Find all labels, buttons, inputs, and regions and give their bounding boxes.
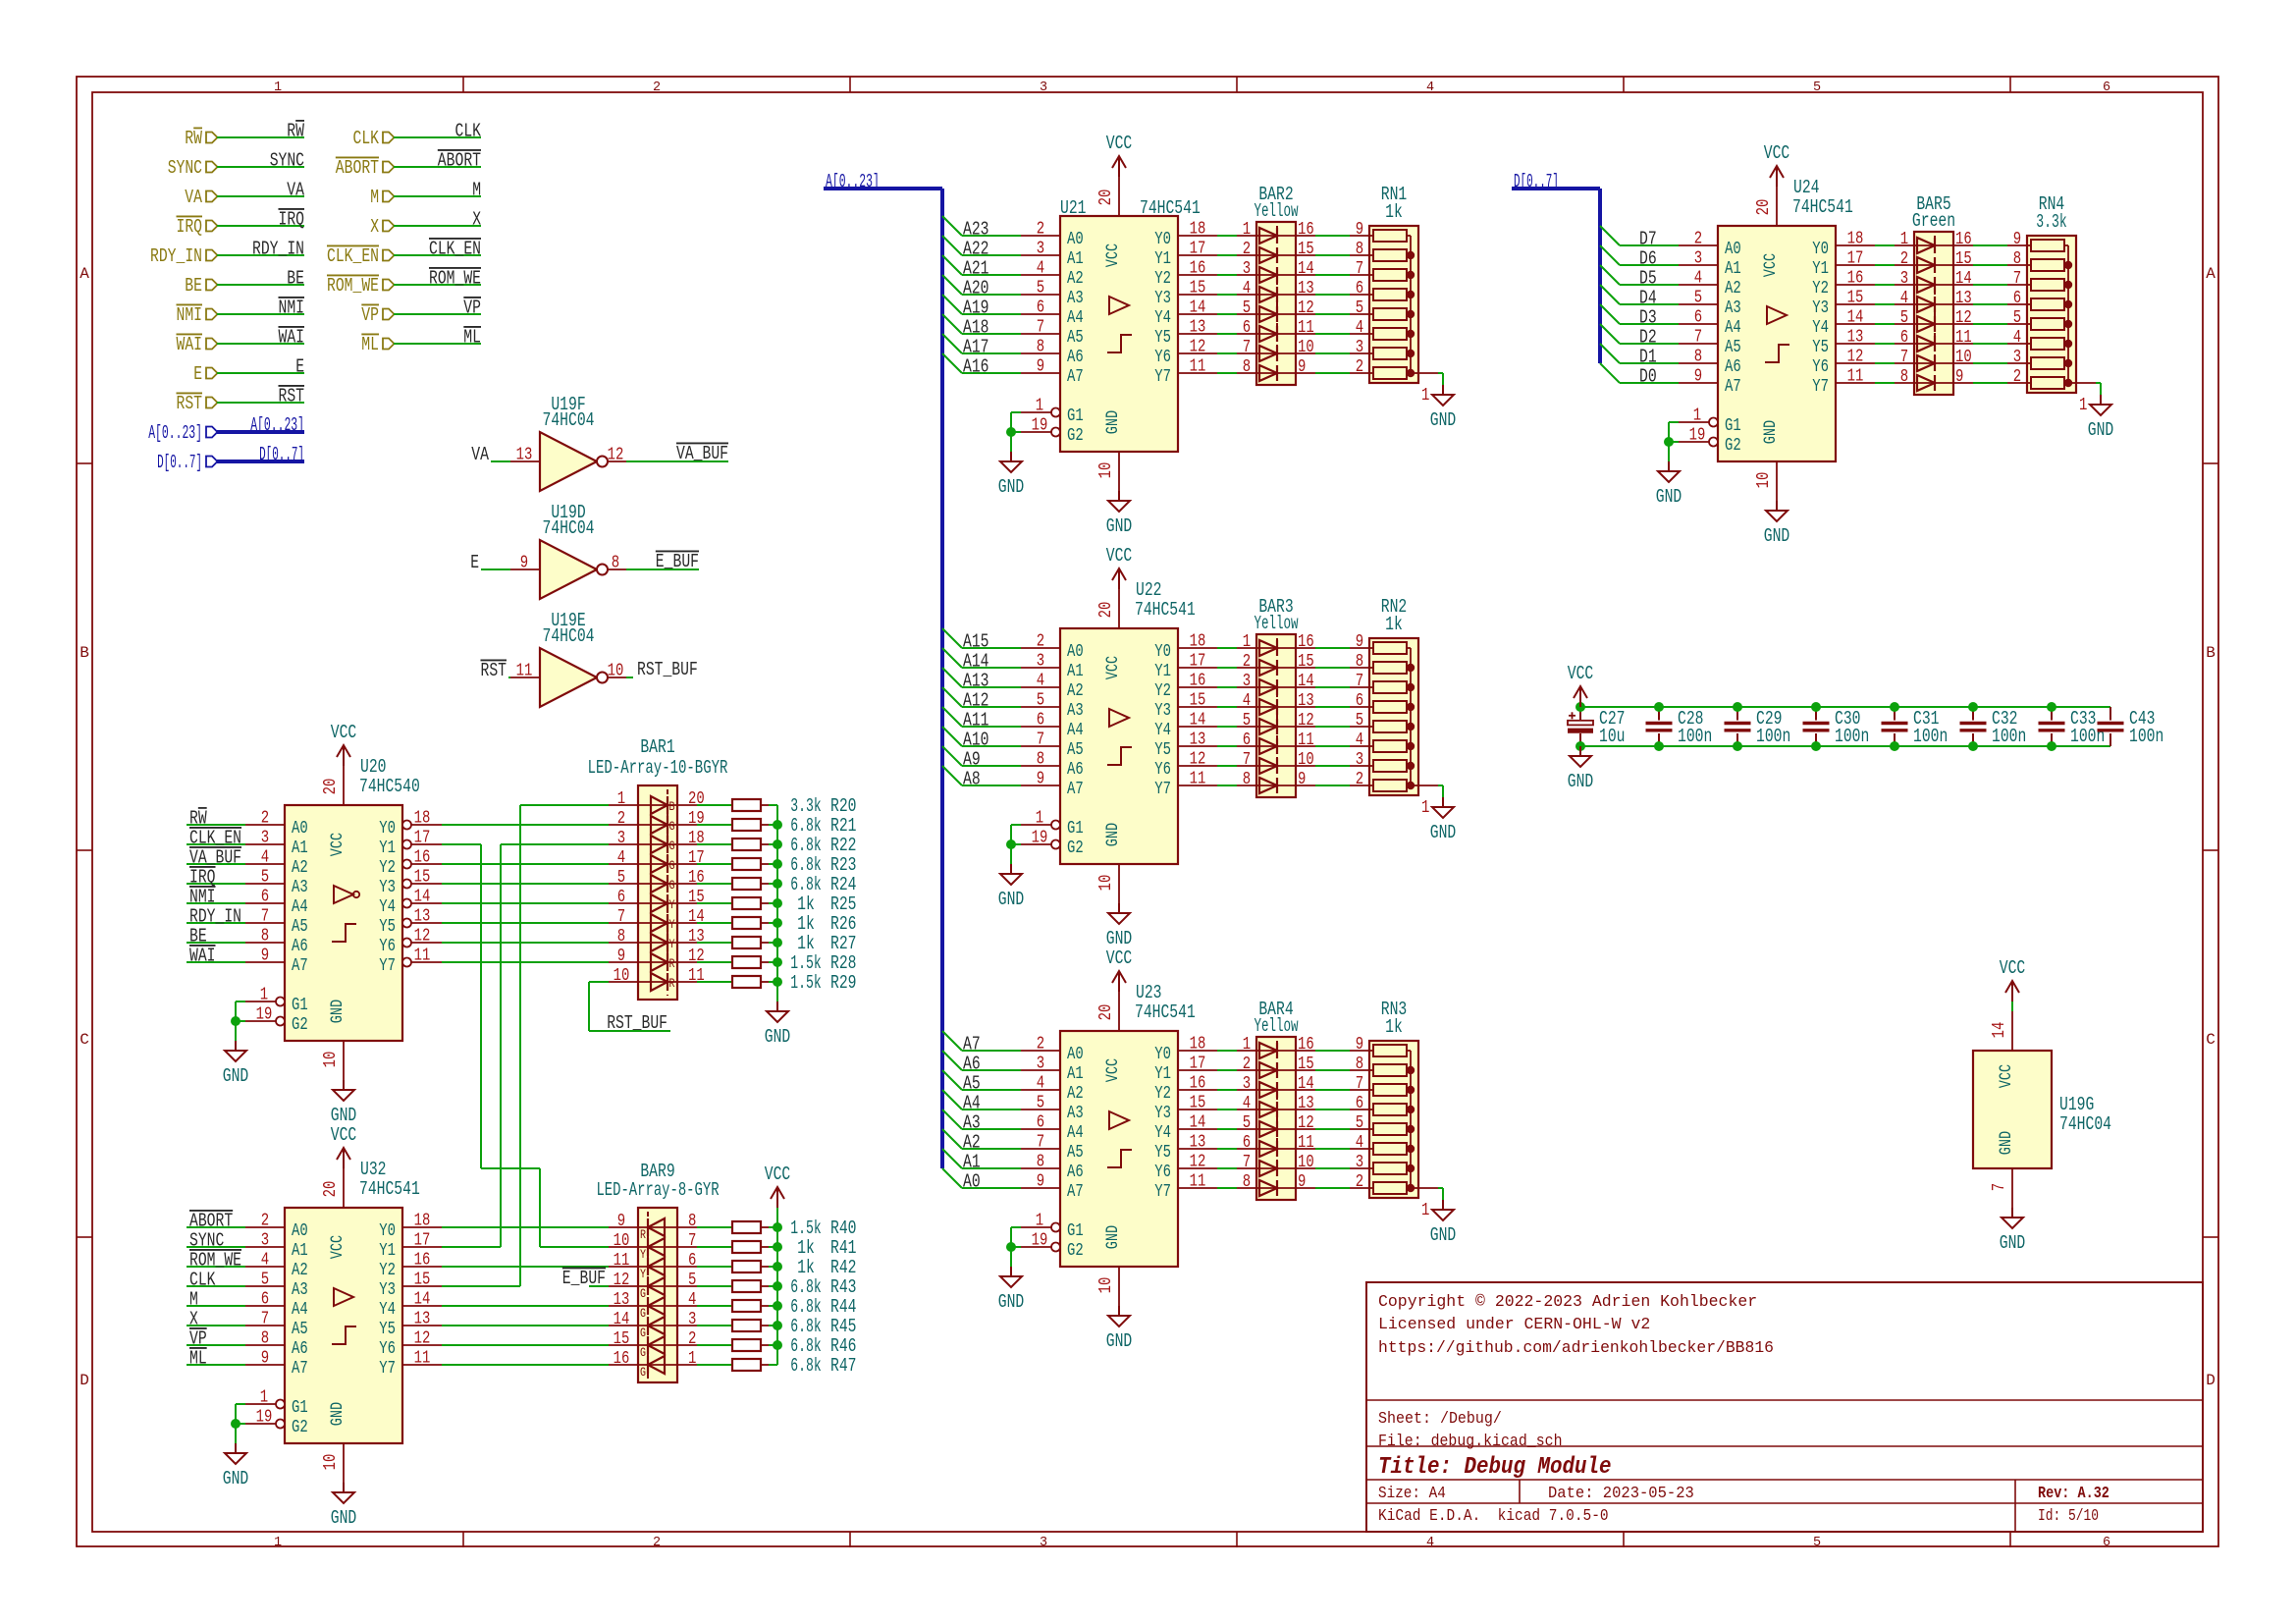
svg-text:1: 1 bbox=[260, 986, 268, 1005]
svg-text:9: 9 bbox=[1356, 1035, 1363, 1055]
svg-text:5: 5 bbox=[1900, 308, 1908, 328]
svg-text:Y6: Y6 bbox=[1154, 1163, 1171, 1182]
svg-text:15: 15 bbox=[1955, 249, 1972, 269]
svg-text:18: 18 bbox=[1190, 632, 1206, 652]
svg-text:Y2: Y2 bbox=[379, 1261, 396, 1280]
svg-text:VCC: VCC bbox=[1568, 663, 1594, 684]
svg-text:Id: 5/10: Id: 5/10 bbox=[2038, 1506, 2099, 1525]
svg-text:A6: A6 bbox=[1725, 357, 1741, 377]
svg-text:Y3: Y3 bbox=[1154, 701, 1171, 721]
svg-text:74HC541: 74HC541 bbox=[1792, 196, 1853, 218]
svg-text:18: 18 bbox=[1847, 230, 1864, 249]
svg-text:11: 11 bbox=[1190, 1172, 1206, 1192]
svg-text:10: 10 bbox=[614, 1231, 630, 1251]
svg-text:7: 7 bbox=[1990, 1183, 2009, 1191]
svg-text:4: 4 bbox=[1037, 672, 1044, 691]
svg-text:15: 15 bbox=[1190, 1094, 1206, 1113]
svg-text:7: 7 bbox=[688, 1231, 696, 1251]
svg-text:100n: 100n bbox=[2129, 726, 2163, 747]
svg-text:8: 8 bbox=[617, 927, 625, 947]
svg-text:LED-Array-8-GYR: LED-Array-8-GYR bbox=[596, 1179, 719, 1201]
svg-text:2: 2 bbox=[1037, 632, 1044, 652]
svg-text:13: 13 bbox=[1847, 328, 1864, 348]
svg-text:A5: A5 bbox=[1067, 740, 1084, 760]
svg-text:4: 4 bbox=[1426, 81, 1434, 95]
svg-text:7: 7 bbox=[1694, 328, 1702, 348]
svg-text:5: 5 bbox=[1037, 1094, 1044, 1113]
svg-text:6: 6 bbox=[1037, 298, 1044, 318]
svg-text:12: 12 bbox=[414, 1329, 431, 1349]
svg-text:VCC: VCC bbox=[331, 722, 357, 743]
svg-text:A0: A0 bbox=[1725, 240, 1741, 259]
svg-text:1: 1 bbox=[1693, 406, 1701, 426]
svg-text:11: 11 bbox=[516, 662, 533, 681]
svg-text:5: 5 bbox=[1813, 1536, 1821, 1550]
svg-text:12: 12 bbox=[414, 927, 431, 947]
svg-text:11: 11 bbox=[614, 1251, 630, 1271]
svg-text:7: 7 bbox=[1037, 318, 1044, 338]
svg-text:G2: G2 bbox=[1067, 839, 1084, 858]
svg-text:CLK_EN: CLK_EN bbox=[189, 828, 241, 849]
svg-text:A2: A2 bbox=[1067, 1084, 1084, 1104]
svg-text:G: G bbox=[669, 839, 675, 853]
svg-text:8: 8 bbox=[1243, 770, 1251, 789]
svg-text:2: 2 bbox=[1243, 1055, 1251, 1074]
svg-text:Y: Y bbox=[640, 1267, 646, 1281]
svg-text:3.3k: 3.3k bbox=[2036, 211, 2066, 233]
svg-text:74HC04: 74HC04 bbox=[543, 409, 595, 431]
svg-text:17: 17 bbox=[414, 829, 431, 848]
svg-text:R: R bbox=[640, 1227, 646, 1242]
svg-text:6: 6 bbox=[1900, 328, 1908, 348]
svg-text:10: 10 bbox=[1096, 1277, 1116, 1294]
svg-text:1: 1 bbox=[1036, 809, 1043, 829]
svg-text:20: 20 bbox=[1096, 602, 1116, 619]
svg-text:16: 16 bbox=[1298, 220, 1314, 240]
svg-text:20: 20 bbox=[321, 1181, 341, 1198]
svg-text:14: 14 bbox=[614, 1310, 630, 1329]
svg-text:A7: A7 bbox=[1067, 1182, 1084, 1202]
svg-text:13: 13 bbox=[1298, 691, 1314, 711]
svg-text:D1: D1 bbox=[1639, 347, 1657, 368]
svg-text:Y0: Y0 bbox=[1154, 230, 1171, 249]
svg-text:1k: 1k bbox=[1385, 614, 1403, 635]
svg-text:6.8k: 6.8k bbox=[790, 815, 821, 837]
svg-text:12: 12 bbox=[1955, 308, 1972, 328]
svg-text:E_BUF: E_BUF bbox=[656, 551, 699, 572]
svg-text:E: E bbox=[193, 363, 202, 385]
svg-text:A3: A3 bbox=[1067, 1104, 1084, 1123]
svg-text:4: 4 bbox=[1356, 1133, 1363, 1153]
svg-text:6: 6 bbox=[1243, 1133, 1251, 1153]
svg-text:Green: Green bbox=[1912, 210, 1955, 232]
svg-text:G: G bbox=[640, 1306, 646, 1321]
svg-text:Y3: Y3 bbox=[379, 878, 396, 897]
svg-text:Y7: Y7 bbox=[1154, 1182, 1171, 1202]
svg-text:5: 5 bbox=[1813, 81, 1821, 95]
svg-text:Y3: Y3 bbox=[379, 1280, 396, 1300]
svg-text:1: 1 bbox=[1421, 386, 1429, 406]
svg-text:16: 16 bbox=[1298, 632, 1314, 652]
svg-text:7: 7 bbox=[1356, 1074, 1363, 1094]
svg-text:3: 3 bbox=[1037, 652, 1044, 672]
svg-text:9: 9 bbox=[1356, 632, 1363, 652]
svg-text:RST: RST bbox=[177, 393, 203, 414]
svg-text:A6: A6 bbox=[1067, 1163, 1084, 1182]
svg-text:3: 3 bbox=[261, 1231, 269, 1251]
svg-text:GND: GND bbox=[998, 1291, 1025, 1313]
svg-text:GND: GND bbox=[1761, 420, 1781, 444]
svg-text:A2: A2 bbox=[1725, 279, 1741, 298]
svg-text:5: 5 bbox=[1243, 711, 1251, 731]
svg-text:18: 18 bbox=[414, 809, 431, 829]
svg-text:C: C bbox=[2206, 1031, 2216, 1049]
svg-text:Y4: Y4 bbox=[1812, 318, 1829, 338]
svg-text:10: 10 bbox=[1298, 1153, 1314, 1172]
svg-text:GND: GND bbox=[1764, 525, 1790, 547]
svg-text:R23: R23 bbox=[830, 854, 857, 876]
svg-text:2: 2 bbox=[1037, 1035, 1044, 1055]
svg-text:17: 17 bbox=[1847, 249, 1864, 269]
svg-text:A3: A3 bbox=[1067, 701, 1084, 721]
svg-text:G1: G1 bbox=[1067, 1221, 1084, 1241]
svg-text:16: 16 bbox=[1190, 672, 1206, 691]
svg-text:7: 7 bbox=[1243, 338, 1251, 357]
svg-text:GND: GND bbox=[765, 1026, 791, 1048]
svg-text:16: 16 bbox=[614, 1349, 630, 1369]
svg-text:A1: A1 bbox=[1067, 1064, 1084, 1084]
svg-text:A6: A6 bbox=[292, 1339, 308, 1359]
svg-text:Y0: Y0 bbox=[1812, 240, 1829, 259]
svg-text:RST: RST bbox=[481, 660, 507, 681]
svg-text:VCC: VCC bbox=[765, 1164, 791, 1185]
svg-text:6.8k: 6.8k bbox=[790, 1355, 821, 1377]
svg-text:100n: 100n bbox=[1835, 726, 1869, 747]
svg-text:5: 5 bbox=[1694, 289, 1702, 308]
svg-text:A13: A13 bbox=[963, 671, 989, 692]
svg-text:A0: A0 bbox=[292, 1221, 308, 1241]
svg-text:A0: A0 bbox=[292, 819, 308, 839]
svg-text:13: 13 bbox=[1298, 1094, 1314, 1113]
svg-text:17: 17 bbox=[1190, 1055, 1206, 1074]
svg-text:6: 6 bbox=[2103, 81, 2110, 95]
svg-text:R21: R21 bbox=[830, 815, 857, 837]
svg-text:GND: GND bbox=[2088, 419, 2114, 441]
svg-text:12: 12 bbox=[1298, 298, 1314, 318]
svg-text:8: 8 bbox=[1356, 240, 1363, 259]
svg-text:GND: GND bbox=[1103, 823, 1123, 846]
svg-text:Y: Y bbox=[669, 917, 675, 932]
svg-text:1.5k: 1.5k bbox=[790, 952, 821, 974]
svg-text:Y3: Y3 bbox=[1812, 298, 1829, 318]
svg-text:4: 4 bbox=[1900, 289, 1908, 308]
svg-text:A4: A4 bbox=[292, 1300, 308, 1320]
svg-text:16: 16 bbox=[414, 848, 431, 868]
svg-text:7: 7 bbox=[617, 907, 625, 927]
svg-text:5: 5 bbox=[2013, 308, 2021, 328]
svg-text:7: 7 bbox=[1356, 672, 1363, 691]
svg-text:5: 5 bbox=[261, 868, 269, 888]
svg-text:KiCad E.D.A. kicad 7.0.5-0: KiCad E.D.A. kicad 7.0.5-0 bbox=[1378, 1506, 1609, 1525]
svg-text:G: G bbox=[669, 858, 675, 873]
svg-text:A[0..23]: A[0..23] bbox=[148, 422, 202, 444]
svg-text:18: 18 bbox=[414, 1212, 431, 1231]
svg-text:3.3k: 3.3k bbox=[790, 795, 821, 817]
svg-text:SYNC: SYNC bbox=[168, 157, 202, 179]
svg-text:7: 7 bbox=[1900, 348, 1908, 367]
svg-text:11: 11 bbox=[1190, 357, 1206, 377]
svg-text:16: 16 bbox=[414, 1251, 431, 1271]
svg-text:A7: A7 bbox=[292, 956, 308, 976]
svg-text:2: 2 bbox=[1037, 220, 1044, 240]
svg-text:Yellow: Yellow bbox=[1254, 200, 1298, 222]
svg-text:6.8k: 6.8k bbox=[790, 1296, 821, 1318]
svg-text:Title: Debug Module: Title: Debug Module bbox=[1378, 1454, 1612, 1481]
svg-text:14: 14 bbox=[1298, 672, 1314, 691]
svg-text:9: 9 bbox=[1298, 1172, 1306, 1192]
svg-text:IRQ: IRQ bbox=[279, 209, 305, 231]
svg-text:9: 9 bbox=[1298, 770, 1306, 789]
svg-text:1: 1 bbox=[274, 1536, 282, 1550]
svg-text:12: 12 bbox=[1847, 348, 1864, 367]
svg-text:7: 7 bbox=[261, 907, 269, 927]
svg-text:R41: R41 bbox=[830, 1237, 857, 1259]
svg-text:Date: 2023-05-23: Date: 2023-05-23 bbox=[1548, 1484, 1694, 1502]
svg-text:A1: A1 bbox=[1067, 662, 1084, 681]
svg-text:1: 1 bbox=[1900, 230, 1908, 249]
svg-text:1: 1 bbox=[1036, 1212, 1043, 1231]
svg-text:74HC540: 74HC540 bbox=[359, 776, 420, 797]
svg-text:GND: GND bbox=[2000, 1232, 2026, 1254]
svg-text:G2: G2 bbox=[292, 1015, 308, 1035]
svg-text:A2: A2 bbox=[292, 858, 308, 878]
svg-text:14: 14 bbox=[1955, 269, 1972, 289]
svg-text:M: M bbox=[472, 180, 481, 201]
svg-text:A7: A7 bbox=[1725, 377, 1741, 397]
svg-text:20: 20 bbox=[1096, 189, 1116, 206]
svg-text:A7: A7 bbox=[963, 1034, 981, 1056]
svg-text:Y6: Y6 bbox=[379, 1339, 396, 1359]
svg-text:11: 11 bbox=[1298, 731, 1314, 750]
svg-text:BAR1: BAR1 bbox=[640, 736, 674, 758]
svg-text:5: 5 bbox=[1243, 298, 1251, 318]
svg-text:CLK_EN: CLK_EN bbox=[429, 239, 481, 260]
svg-text:GND: GND bbox=[998, 889, 1025, 910]
svg-text:D0: D0 bbox=[1639, 366, 1657, 388]
svg-text:6: 6 bbox=[1356, 1094, 1363, 1113]
svg-text:VCC: VCC bbox=[328, 1235, 347, 1259]
svg-text:RST_BUF: RST_BUF bbox=[607, 1012, 667, 1034]
svg-text:13: 13 bbox=[414, 907, 431, 927]
svg-text:6.8k: 6.8k bbox=[790, 1335, 821, 1357]
svg-text:ML: ML bbox=[463, 327, 481, 349]
svg-text:Size: A4: Size: A4 bbox=[1378, 1484, 1446, 1502]
svg-text:9: 9 bbox=[261, 947, 269, 966]
svg-text:12: 12 bbox=[1190, 338, 1206, 357]
svg-text:8: 8 bbox=[1243, 1172, 1251, 1192]
svg-text:15: 15 bbox=[1190, 279, 1206, 298]
svg-text:14: 14 bbox=[1847, 308, 1864, 328]
svg-text:3: 3 bbox=[1356, 750, 1363, 770]
svg-text:D3: D3 bbox=[1639, 307, 1657, 329]
svg-text:https://github.com/adrienkohlb: https://github.com/adrienkohlbecker/BB81… bbox=[1378, 1338, 1774, 1357]
svg-text:3: 3 bbox=[261, 829, 269, 848]
svg-text:11: 11 bbox=[1298, 1133, 1314, 1153]
svg-text:A[0..23]: A[0..23] bbox=[250, 414, 304, 436]
svg-text:1k: 1k bbox=[1385, 1016, 1403, 1038]
svg-text:10: 10 bbox=[1754, 472, 1774, 489]
svg-text:Y5: Y5 bbox=[379, 1320, 396, 1339]
svg-text:R42: R42 bbox=[830, 1257, 857, 1278]
svg-text:M: M bbox=[370, 187, 379, 208]
svg-text:Y1: Y1 bbox=[1154, 249, 1171, 269]
svg-text:Y7: Y7 bbox=[379, 1359, 396, 1379]
svg-text:19: 19 bbox=[256, 1005, 273, 1025]
svg-text:Sheet: /Debug/: Sheet: /Debug/ bbox=[1378, 1409, 1502, 1428]
svg-text:3: 3 bbox=[1243, 672, 1251, 691]
svg-text:1: 1 bbox=[1243, 1035, 1251, 1055]
svg-text:13: 13 bbox=[1955, 289, 1972, 308]
svg-text:VCC: VCC bbox=[1103, 656, 1123, 679]
svg-text:Y6: Y6 bbox=[1154, 348, 1171, 367]
svg-text:A15: A15 bbox=[963, 631, 989, 653]
svg-text:A10: A10 bbox=[963, 730, 989, 751]
svg-text:15: 15 bbox=[1298, 240, 1314, 259]
svg-text:15: 15 bbox=[1847, 289, 1864, 308]
svg-text:A5: A5 bbox=[292, 917, 308, 937]
svg-text:1k: 1k bbox=[797, 913, 815, 935]
svg-text:1: 1 bbox=[1243, 632, 1251, 652]
svg-text:Yellow: Yellow bbox=[1254, 613, 1298, 634]
svg-text:NMI: NMI bbox=[279, 298, 305, 319]
svg-text:8: 8 bbox=[1900, 367, 1908, 387]
svg-text:9: 9 bbox=[1037, 1172, 1044, 1192]
svg-text:VCC: VCC bbox=[1106, 947, 1133, 969]
svg-text:3: 3 bbox=[1243, 259, 1251, 279]
svg-text:11: 11 bbox=[1190, 770, 1206, 789]
svg-text:U20: U20 bbox=[360, 756, 387, 778]
svg-text:13: 13 bbox=[1190, 731, 1206, 750]
svg-text:6.8k: 6.8k bbox=[790, 1316, 821, 1337]
svg-text:3: 3 bbox=[617, 829, 625, 848]
svg-text:NMI: NMI bbox=[177, 304, 203, 326]
svg-text:A17: A17 bbox=[963, 337, 989, 358]
svg-text:2: 2 bbox=[1900, 249, 1908, 269]
svg-text:2: 2 bbox=[1243, 652, 1251, 672]
svg-text:Y1: Y1 bbox=[1812, 259, 1829, 279]
svg-text:GND: GND bbox=[1430, 409, 1457, 431]
svg-text:Y4: Y4 bbox=[1154, 308, 1171, 328]
svg-text:BE: BE bbox=[185, 275, 202, 297]
svg-text:11: 11 bbox=[414, 947, 431, 966]
svg-text:2: 2 bbox=[1243, 240, 1251, 259]
svg-text:5: 5 bbox=[1356, 298, 1363, 318]
svg-text:A: A bbox=[80, 265, 89, 283]
svg-text:3: 3 bbox=[1040, 1536, 1047, 1550]
svg-text:3: 3 bbox=[1356, 1153, 1363, 1172]
svg-text:VCC: VCC bbox=[331, 1124, 357, 1146]
svg-text:3: 3 bbox=[1900, 269, 1908, 289]
svg-text:10: 10 bbox=[1298, 750, 1314, 770]
svg-text:A5: A5 bbox=[1067, 328, 1084, 348]
svg-text:A0: A0 bbox=[963, 1171, 981, 1193]
svg-text:VA_BUF: VA_BUF bbox=[676, 443, 728, 464]
svg-text:4: 4 bbox=[688, 1290, 696, 1310]
svg-text:GND: GND bbox=[331, 1105, 357, 1126]
svg-text:A4: A4 bbox=[1067, 308, 1084, 328]
svg-text:A5: A5 bbox=[1725, 338, 1741, 357]
svg-text:R24: R24 bbox=[830, 874, 857, 895]
svg-text:RW: RW bbox=[189, 808, 207, 830]
svg-text:14: 14 bbox=[1298, 1074, 1314, 1094]
svg-text:WAI: WAI bbox=[279, 327, 305, 349]
svg-text:A4: A4 bbox=[963, 1093, 981, 1114]
svg-text:G1: G1 bbox=[1067, 406, 1084, 426]
svg-text:G1: G1 bbox=[1067, 819, 1084, 839]
svg-text:7: 7 bbox=[1243, 1153, 1251, 1172]
svg-text:Y5: Y5 bbox=[1154, 740, 1171, 760]
svg-text:2: 2 bbox=[261, 1212, 269, 1231]
svg-text:6: 6 bbox=[2103, 1536, 2110, 1550]
svg-text:9: 9 bbox=[1694, 367, 1702, 387]
svg-text:VCC: VCC bbox=[1103, 244, 1123, 267]
svg-text:4: 4 bbox=[2013, 328, 2021, 348]
svg-text:8: 8 bbox=[1356, 1055, 1363, 1074]
svg-text:VA: VA bbox=[471, 444, 489, 465]
svg-text:3: 3 bbox=[688, 1310, 696, 1329]
svg-text:A3: A3 bbox=[1725, 298, 1741, 318]
svg-text:A14: A14 bbox=[963, 651, 989, 673]
svg-text:GND: GND bbox=[223, 1065, 249, 1087]
svg-text:G: G bbox=[640, 1286, 646, 1301]
svg-text:15: 15 bbox=[414, 1271, 431, 1290]
svg-text:12: 12 bbox=[614, 1271, 630, 1290]
svg-text:9: 9 bbox=[1955, 367, 1963, 387]
svg-text:Y5: Y5 bbox=[1154, 328, 1171, 348]
svg-text:74HC541: 74HC541 bbox=[1140, 197, 1201, 219]
svg-text:Y6: Y6 bbox=[1812, 357, 1829, 377]
svg-text:12: 12 bbox=[608, 446, 624, 465]
svg-text:Y1: Y1 bbox=[379, 1241, 396, 1261]
svg-text:5: 5 bbox=[1356, 711, 1363, 731]
svg-text:7: 7 bbox=[2013, 269, 2021, 289]
svg-text:VA_BUF: VA_BUF bbox=[189, 847, 241, 869]
svg-text:2: 2 bbox=[1356, 1172, 1363, 1192]
svg-text:Y2: Y2 bbox=[1154, 681, 1171, 701]
svg-text:1: 1 bbox=[1036, 397, 1043, 416]
svg-text:A4: A4 bbox=[1725, 318, 1741, 338]
svg-text:11: 11 bbox=[1955, 328, 1972, 348]
svg-text:X: X bbox=[189, 1309, 198, 1330]
svg-text:VP: VP bbox=[361, 304, 379, 326]
svg-text:GND: GND bbox=[328, 1000, 347, 1023]
svg-text:10: 10 bbox=[614, 966, 630, 986]
svg-text:6.8k: 6.8k bbox=[790, 1276, 821, 1298]
svg-text:9: 9 bbox=[2013, 230, 2021, 249]
svg-text:74HC541: 74HC541 bbox=[359, 1178, 420, 1200]
svg-text:Y: Y bbox=[640, 1247, 646, 1262]
svg-text:Y3: Y3 bbox=[1154, 1104, 1171, 1123]
svg-text:3: 3 bbox=[1040, 81, 1047, 95]
svg-text:8: 8 bbox=[1243, 357, 1251, 377]
svg-text:17: 17 bbox=[1190, 652, 1206, 672]
svg-text:5: 5 bbox=[1356, 1113, 1363, 1133]
svg-text:CLK: CLK bbox=[455, 121, 482, 142]
svg-text:6: 6 bbox=[688, 1251, 696, 1271]
svg-text:G2: G2 bbox=[292, 1418, 308, 1437]
svg-text:GND: GND bbox=[1430, 1224, 1457, 1246]
svg-text:GND: GND bbox=[1568, 771, 1594, 792]
